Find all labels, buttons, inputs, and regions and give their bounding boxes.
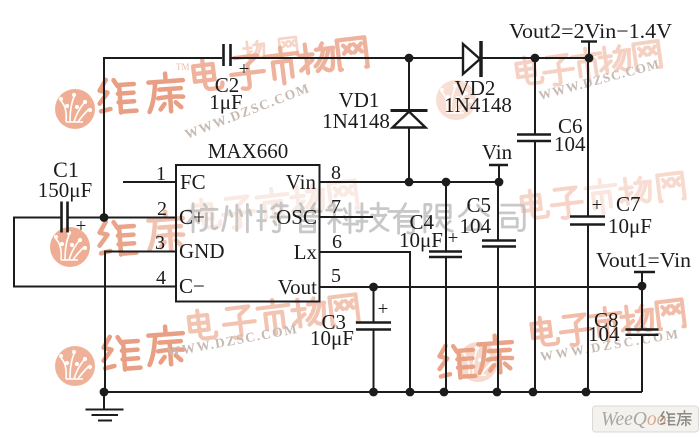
svg-text:104: 104 [460,214,492,238]
svg-text:2: 2 [157,198,167,220]
svg-text:10μF: 10μF [399,228,443,252]
svg-text:FC: FC [180,170,206,194]
svg-text:OSC: OSC [276,205,317,229]
svg-text:TM: TM [176,62,190,72]
svg-text:Vin: Vin [286,170,317,194]
svg-text:C+: C+ [179,205,205,229]
svg-text:Vout2=2Vin−1.4V: Vout2=2Vin−1.4V [509,19,672,43]
svg-text:5: 5 [331,265,341,287]
svg-text:+: + [592,195,603,216]
svg-text:C7: C7 [616,192,641,216]
svg-text:WWW.DZSC.COM: WWW.DZSC.COM [537,56,662,103]
svg-text:+: + [239,59,250,80]
svg-text:Vout: Vout [278,275,317,299]
svg-text:3: 3 [155,232,165,254]
svg-text:Vout1=Vin: Vout1=Vin [596,248,692,272]
svg-text:10μF: 10μF [310,326,354,350]
svg-text:10μF: 10μF [608,214,652,238]
svg-text:4: 4 [156,267,166,289]
svg-text:150μF: 150μF [38,178,92,202]
svg-text:6: 6 [332,231,342,253]
svg-text:GND: GND [179,239,225,263]
svg-text:Vin: Vin [482,140,513,164]
svg-text:104: 104 [588,322,620,346]
svg-text:1N4148: 1N4148 [322,109,390,133]
svg-text:C−: C− [179,274,205,298]
svg-text:1μF: 1μF [209,90,242,114]
svg-text:7: 7 [331,196,341,218]
svg-text:WeeQoo: WeeQoo [601,409,667,430]
svg-text:Lx: Lx [294,240,318,264]
svg-text:MAX660: MAX660 [208,139,289,163]
svg-text:104: 104 [554,132,586,156]
svg-text:+: + [448,228,459,249]
svg-text:1: 1 [156,163,166,185]
svg-text:+: + [378,299,389,320]
svg-text:WWW.DZSC.COM: WWW.DZSC.COM [166,321,300,360]
svg-text:8: 8 [331,162,341,184]
svg-text:+: + [76,216,87,237]
svg-text:1N4148: 1N4148 [444,93,512,117]
